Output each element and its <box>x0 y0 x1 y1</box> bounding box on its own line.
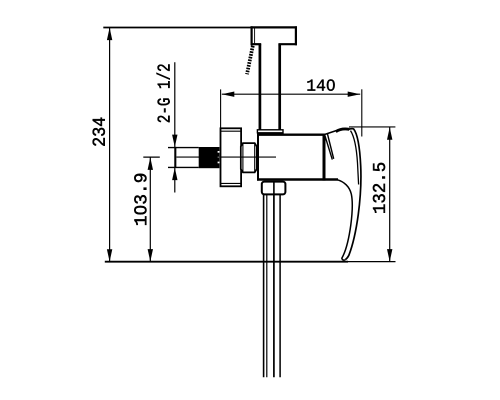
dimension 103.9 extension bar <box>143 156 160 158</box>
dimension 132.5 line <box>389 127 391 261</box>
dimension 103.9 line <box>149 157 151 261</box>
label 132.5 <box>373 163 385 213</box>
sprayer trigger hatched lever <box>247 46 253 74</box>
handle outer blade curve <box>345 129 361 260</box>
handle hump ridge <box>336 129 350 132</box>
hose connector nut <box>262 182 286 195</box>
label 103.9 <box>134 174 146 225</box>
centerline through pipe flange nut into body <box>177 156 277 158</box>
handle skirt inner curve <box>338 180 353 260</box>
sprayer stem right wall <box>278 44 281 130</box>
label 140 <box>307 79 334 90</box>
handle neck wedge diagonal 2 <box>327 134 333 159</box>
stem base plate <box>257 130 283 133</box>
sprayer stem left wall <box>259 44 262 130</box>
hose lines <box>264 194 281 377</box>
label 2-G 1/2 <box>157 64 170 122</box>
wire bottom baseline thin extension <box>348 261 396 263</box>
wire bottom baseline thick <box>105 261 348 263</box>
mixer body <box>257 134 338 181</box>
dimension 140 left extension line <box>220 89 222 128</box>
inlet pipe body <box>168 147 199 168</box>
dimension 140 line <box>222 93 360 95</box>
handle top edge <box>324 131 336 135</box>
label 234 <box>93 118 105 146</box>
dimension 132.5 top extension line <box>349 126 395 128</box>
wall flange <box>221 128 242 186</box>
handle inner blade upper line <box>351 131 359 185</box>
handle neck wedge diagonal 1 <box>325 135 333 160</box>
wire top extension line <box>103 27 297 29</box>
hex nut <box>241 143 257 172</box>
dimension 140 right extension line <box>361 89 363 136</box>
sprayer head top bar <box>251 26 298 45</box>
dimension 234 line <box>109 28 111 262</box>
dimension 2-G 1/2 line <box>174 62 176 192</box>
inlet thread block <box>199 147 220 168</box>
